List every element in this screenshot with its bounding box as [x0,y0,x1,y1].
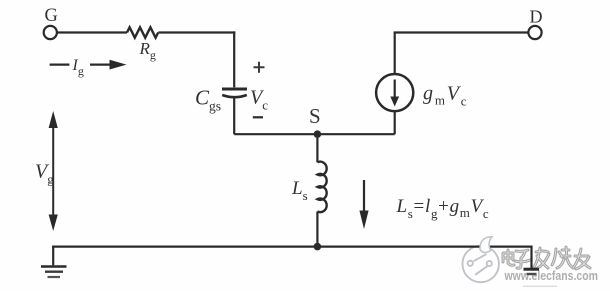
wire resistor to corner [158,31,235,33]
terminal G [44,26,57,39]
voltage arrow Vg [49,111,58,231]
wire source bottom to S rail [394,111,396,134]
wire bottom rail [52,246,531,248]
watermark logo circle [463,246,499,282]
watermark faint underline [523,285,557,287]
svg-text:Vc: Vc [250,87,268,113]
svg-text:D: D [530,7,543,27]
label plus [254,62,265,73]
watermark big text white emboss core [503,247,590,269]
wire top right to D [394,31,529,33]
current arrow Is [359,180,368,229]
ground (left) [41,246,67,278]
svg-text:Ls=lg+gmVc: Ls=lg+gmVc [396,196,490,221]
svg-text:Ig: Ig [72,57,84,78]
inductor Ls [317,138,326,247]
current source gmVc [376,74,413,111]
node S [314,130,322,138]
label minus [253,116,263,118]
wire corner down to capacitor [233,31,235,87]
svg-text:S: S [309,104,321,128]
svg-text:gmVc: gmVc [423,83,468,109]
svg-text:G: G [45,6,58,26]
wire G to resistor [57,31,127,33]
ground (right) [524,246,540,275]
terminal D [528,26,541,39]
capacitor Cgs [222,89,247,134]
svg-text:Vg: Vg [35,161,54,187]
node bottom junction [314,243,322,251]
svg-text:www.elecfans.com: www.elecfans.com [504,269,598,283]
svg-text:Rg: Rg [139,39,156,62]
svg-text:Cgs: Cgs [195,86,221,114]
wire S rail [234,133,395,135]
current arrow Ig [50,57,127,78]
watermark big text 电子发烧友 (approximated strokes) [503,247,590,269]
wire source top to D rail [394,33,396,75]
resistor Rg [127,27,158,37]
svg-text:Ls: Ls [291,178,308,203]
